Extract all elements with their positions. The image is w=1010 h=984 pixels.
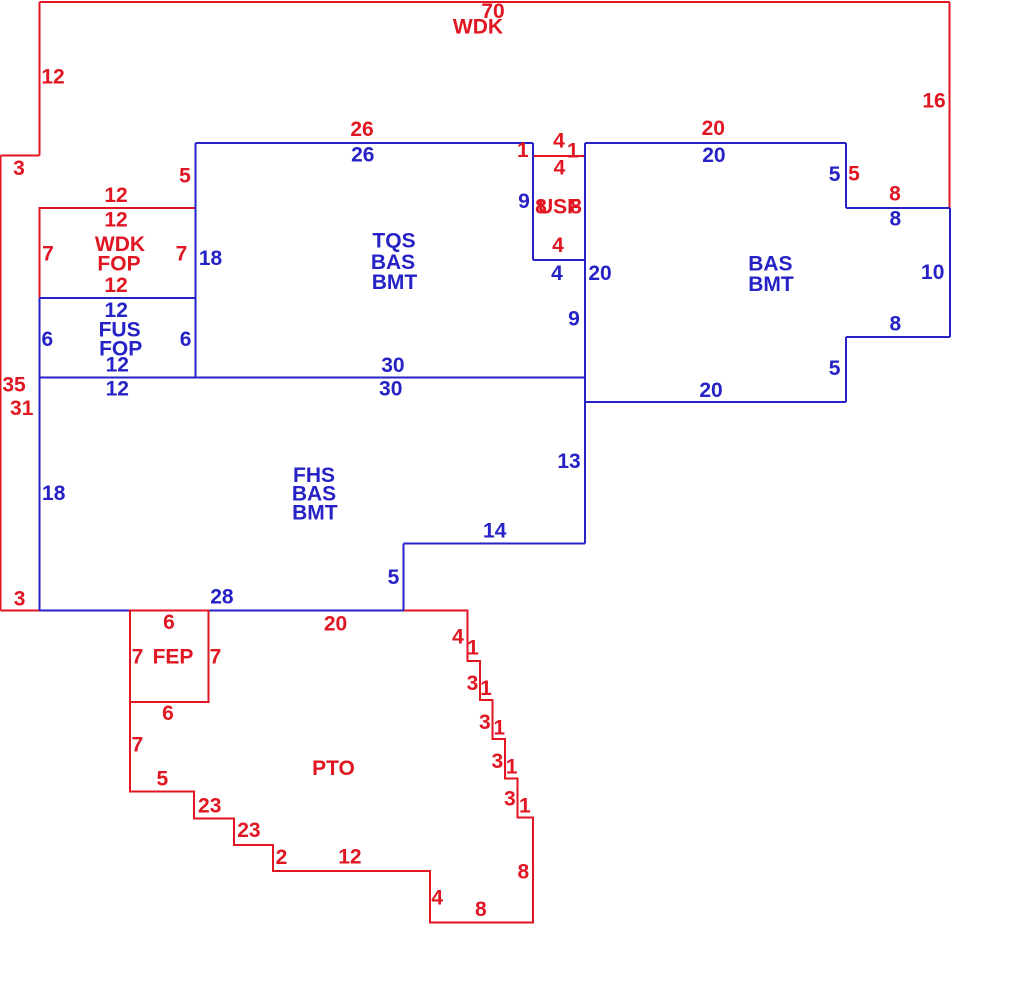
svg-text:7: 7: [131, 734, 143, 757]
house BAS bottom edge 20: [585, 401, 846, 403]
svg-text:6: 6: [180, 328, 192, 351]
house BAS step top edge 8: [846, 207, 950, 209]
svg-text:FEP: FEP: [153, 646, 194, 669]
svg-text:12: 12: [41, 66, 64, 89]
svg-text:BMT: BMT: [372, 271, 418, 294]
svg-text:13: 13: [557, 450, 580, 473]
svg-text:12: 12: [106, 354, 129, 377]
svg-text:30: 30: [379, 377, 402, 400]
svg-text:23: 23: [198, 795, 221, 818]
svg-text:12: 12: [104, 184, 127, 207]
svg-text:3: 3: [504, 787, 516, 810]
deck WDK far-left edge 35: [0, 156, 2, 611]
svg-text:BAS: BAS: [748, 252, 792, 275]
svg-text:PTO: PTO: [312, 757, 355, 780]
deck WDK top edge 70: [40, 1, 950, 3]
svg-text:12: 12: [106, 378, 129, 401]
svg-text:20: 20: [702, 144, 725, 167]
svg-text:5: 5: [157, 768, 169, 791]
deck WDK bottom jog 3: [1, 610, 40, 612]
svg-text:30: 30: [381, 354, 404, 377]
svg-text:7: 7: [176, 243, 188, 266]
house BAS lower right edge 5: [845, 337, 847, 402]
svg-text:35: 35: [2, 374, 26, 397]
svg-text:20: 20: [699, 379, 722, 402]
house BAS right edge 10: [949, 208, 951, 337]
svg-text:7: 7: [42, 243, 54, 266]
svg-text:3: 3: [467, 672, 479, 695]
deck WDK right edge 16: [949, 2, 951, 208]
house shared vertical edge 20-9-13: [584, 143, 586, 544]
porch FUS FOP left edge 6: [39, 298, 41, 378]
house BAS top edge 20: [585, 142, 846, 144]
svg-text:12: 12: [104, 209, 127, 232]
house TQS/FHS shared edge 30: [40, 377, 586, 379]
svg-text:23: 23: [237, 819, 260, 842]
house FHS bottom edge 28: [40, 610, 404, 612]
svg-text:WDK: WDK: [453, 16, 503, 39]
svg-text:20: 20: [588, 262, 611, 285]
svg-text:18: 18: [199, 247, 223, 270]
svg-text:8: 8: [570, 196, 582, 219]
house FHS left edge 18: [39, 378, 41, 611]
utility USF bottom edge 4: [533, 259, 585, 261]
house BAS step bottom edge 8: [846, 336, 950, 338]
svg-text:BMT: BMT: [292, 502, 338, 525]
svg-text:4: 4: [554, 157, 566, 180]
utility USF left edge 9: [532, 143, 534, 260]
house TQS left edge 18: [195, 143, 197, 378]
svg-text:1: 1: [467, 636, 479, 659]
deck WDK jog 3: [1, 155, 40, 157]
svg-text:8: 8: [890, 313, 902, 336]
svg-text:BMT: BMT: [748, 273, 794, 296]
svg-text:14: 14: [483, 520, 507, 543]
svg-text:1: 1: [517, 139, 529, 162]
svg-text:31: 31: [10, 397, 34, 420]
house BAS right step edge 5: [845, 143, 847, 208]
porch FUS FOP top edge 12: [40, 297, 196, 299]
deck WDK left edge 12: [39, 2, 41, 156]
svg-text:2: 2: [276, 846, 288, 869]
svg-text:4: 4: [551, 262, 563, 285]
svg-text:3: 3: [13, 157, 25, 180]
svg-text:7: 7: [210, 646, 222, 669]
svg-text:4: 4: [431, 887, 443, 910]
svg-text:20: 20: [324, 613, 347, 636]
svg-text:26: 26: [351, 144, 374, 167]
svg-text:FOP: FOP: [97, 253, 140, 276]
svg-text:1: 1: [567, 140, 579, 163]
svg-text:1: 1: [493, 716, 505, 739]
house FHS step edge 14: [404, 543, 586, 545]
svg-text:8: 8: [475, 898, 487, 921]
utility USF top edge 4: [533, 155, 585, 157]
svg-text:12: 12: [104, 274, 127, 297]
svg-text:1: 1: [519, 795, 531, 818]
svg-text:1: 1: [480, 677, 492, 700]
svg-text:10: 10: [921, 261, 944, 284]
svg-text:5: 5: [179, 165, 191, 188]
svg-text:16: 16: [922, 90, 945, 113]
svg-text:6: 6: [41, 328, 53, 351]
svg-text:26: 26: [350, 118, 373, 141]
svg-text:7: 7: [132, 646, 144, 669]
svg-text:6: 6: [163, 611, 175, 634]
porch FEP outline: [130, 611, 209, 703]
svg-text:5: 5: [829, 357, 841, 380]
svg-text:3: 3: [14, 587, 26, 610]
svg-text:8: 8: [517, 860, 529, 883]
svg-text:3: 3: [479, 711, 491, 734]
svg-text:4: 4: [553, 130, 565, 153]
svg-text:5: 5: [829, 163, 841, 186]
house TQS top edge 26: [196, 142, 534, 144]
svg-text:9: 9: [518, 190, 530, 213]
svg-text:9: 9: [568, 308, 580, 331]
svg-text:3: 3: [492, 750, 504, 773]
svg-text:18: 18: [42, 482, 66, 505]
svg-text:5: 5: [848, 163, 860, 186]
patio PTO outline: [130, 611, 533, 923]
svg-text:12: 12: [338, 846, 361, 869]
svg-text:4: 4: [452, 626, 464, 649]
svg-text:TQS: TQS: [372, 229, 415, 252]
svg-text:8: 8: [890, 208, 902, 231]
house FHS step edge 5: [403, 544, 405, 611]
svg-text:1: 1: [506, 755, 518, 778]
svg-text:6: 6: [162, 702, 174, 725]
svg-text:5: 5: [388, 566, 400, 589]
svg-text:28: 28: [210, 586, 234, 609]
svg-text:8: 8: [889, 183, 901, 206]
svg-text:4: 4: [552, 234, 564, 257]
svg-text:20: 20: [702, 117, 725, 140]
porch WDK FOP outline: [40, 208, 196, 298]
